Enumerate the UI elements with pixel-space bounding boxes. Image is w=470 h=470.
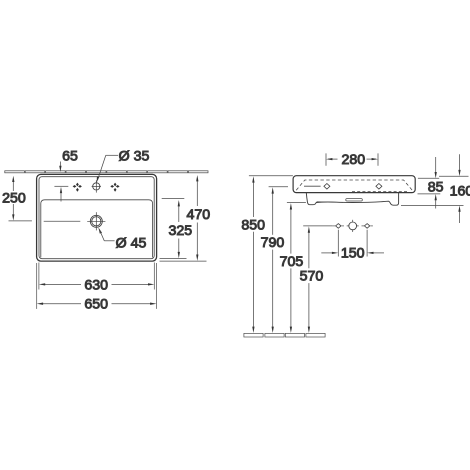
dimension 570 (floor to tap row) <box>303 226 332 333</box>
drain cover plate (front view) <box>346 199 363 201</box>
basin inner rim edge (top view) <box>39 177 154 259</box>
dimension 250 (wall to drain centre) <box>9 176 32 221</box>
svg-text:Ø 45: Ø 45 <box>116 236 147 252</box>
svg-text:250: 250 <box>2 191 26 207</box>
basin underside profile (front view) <box>306 193 398 205</box>
svg-text:Ø 35: Ø 35 <box>119 148 150 164</box>
tap hole circle Ø35 (top view) <box>92 180 101 192</box>
svg-text:570: 570 <box>300 269 324 285</box>
dimension 65 (wall to tap row) <box>54 162 68 202</box>
tap row circle (front view) <box>347 220 359 232</box>
drain hole Ø45 (top view, double circle with centre cross) <box>87 212 105 230</box>
hidden overflow line (dashed, right) <box>352 190 409 192</box>
underside wedge line <box>317 201 343 204</box>
dimension 650 (outer width) <box>37 303 157 305</box>
dimension 705 (floor to basin bottom) <box>287 203 306 333</box>
svg-text:85: 85 <box>428 180 444 196</box>
svg-text:790: 790 <box>261 235 285 251</box>
svg-text:470: 470 <box>186 207 210 223</box>
wall line (hatched wall band, top view) <box>5 171 208 173</box>
optional tap hole mark left (four diamonds) <box>73 183 82 192</box>
bowl outline (top view) <box>41 200 153 258</box>
dimension 790 (floor to rim tap level) <box>269 187 288 333</box>
hidden bowl edge (dashed) <box>296 180 412 190</box>
dimension 470 (outer depth) <box>160 175 207 261</box>
dimension 630 (inner width) <box>39 283 155 285</box>
tap row centreline stubs <box>333 225 373 227</box>
svg-text:325: 325 <box>168 223 192 239</box>
dimension 85 (rim height) <box>418 157 441 209</box>
svg-text:650: 650 <box>84 297 108 313</box>
dimension 280 (tap hole spacing, 2-hole) <box>326 153 378 165</box>
tap hole diamond left (front view rim) <box>324 184 330 190</box>
optional tap hole mark right (four diamonds) <box>110 183 119 192</box>
dimension 160 (total basin height) <box>401 154 469 223</box>
leader Ø 35 <box>97 155 118 182</box>
floor line (hatched) <box>244 333 325 337</box>
dimension 325 (bowl depth) <box>160 199 187 259</box>
tap hole diamond right (front view rim) <box>376 184 382 190</box>
dimension 150 (tap hole spacing, 3-hole) <box>321 230 384 257</box>
tap row marks (front view): diamond right <box>364 224 369 229</box>
svg-text:150: 150 <box>341 246 365 262</box>
basin outer edge (top view) <box>37 174 157 261</box>
svg-text:705: 705 <box>280 254 304 270</box>
drain centreline (top view) <box>44 220 81 222</box>
svg-text:65: 65 <box>62 148 78 164</box>
leader Ø 45 <box>98 227 114 241</box>
basin rim box (front view) <box>293 176 415 193</box>
extension lines bottom (left view) <box>37 263 157 309</box>
overflow slot line (left) <box>304 185 321 187</box>
tap row marks (front view): diamond left <box>336 224 341 229</box>
dimension 850 (floor to rim top) <box>249 176 293 333</box>
svg-text:630: 630 <box>84 277 108 293</box>
svg-text:280: 280 <box>341 152 365 168</box>
svg-text:850: 850 <box>241 218 265 234</box>
svg-text:160: 160 <box>450 184 470 200</box>
